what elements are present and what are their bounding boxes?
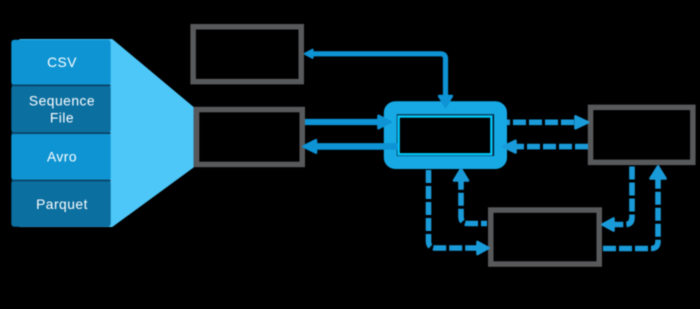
svg-text:File: File: [50, 111, 74, 126]
box Sequence File: [11, 85, 110, 133]
dashed arrow blue box down to bottom box: [429, 170, 489, 254]
separator line 3: [11, 180, 110, 182]
separator line 1: [11, 85, 110, 87]
svg-text:Parquet: Parquet: [36, 197, 88, 212]
dashed arrow right box down to bottom box: [603, 167, 633, 231]
dashed arrow right box to blue box: [504, 141, 589, 153]
box Avro: [11, 133, 110, 180]
gray box bottom: [491, 210, 600, 264]
center blue box: [390, 108, 500, 163]
funnel: [20, 40, 193, 227]
dashed arrow bottom box up to blue box: [454, 169, 487, 224]
box Parquet: [11, 180, 110, 226]
box CSV: [11, 40, 110, 86]
arrow blue box to middle box: [304, 140, 399, 152]
svg-text:Sequence: Sequence: [29, 93, 95, 108]
dashed arrow bottom box up to right box: [603, 167, 666, 249]
arrow middle box to blue box: [305, 116, 391, 128]
gray box middle-left: [197, 110, 303, 165]
gray box top-left: [193, 27, 301, 82]
wire top double arrow: [305, 50, 452, 107]
svg-text:Avro: Avro: [47, 150, 77, 165]
separator line 2: [11, 132, 110, 134]
svg-text:CSV: CSV: [47, 55, 77, 70]
gray box right: [591, 107, 693, 162]
dashed arrow blue box to right box: [507, 116, 588, 128]
